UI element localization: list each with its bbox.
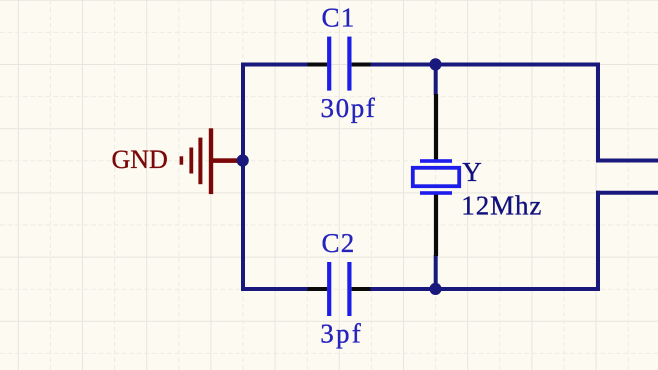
capacitor C2 pin 1 — [308, 287, 328, 291]
capacitor C1 plates — [327, 37, 351, 91]
wire: top rail left segment to C1 pin 1 — [241, 63, 310, 67]
capacitor C1 pin 2 — [352, 63, 371, 67]
svg-text:C2: C2 — [322, 228, 356, 258]
wire: bottom rail right segment from C2 pin 2 to right vertical — [369, 287, 600, 291]
svg-text:C1: C1 — [322, 3, 356, 33]
wire: right vertical lower drop — [596, 191, 600, 291]
power port GND symbol — [180, 128, 240, 194]
capacitor C1 pin 1 — [308, 63, 328, 67]
junction: top node at crystal branch — [429, 58, 441, 70]
crystal Y body — [413, 159, 459, 195]
wire: lower stub entering from right edge — [596, 191, 658, 195]
capacitor C2 pin 2 — [352, 287, 371, 291]
crystal Y pin 2 — [434, 195, 438, 257]
junction: bottom node at crystal branch — [429, 283, 441, 295]
svg-text:GND: GND — [112, 145, 168, 174]
wire: stub from top junction down to crystal pin 1 — [434, 65, 438, 96]
svg-text:30pf: 30pf — [321, 93, 377, 123]
svg-text:12Mhz: 12Mhz — [461, 190, 542, 220]
wire: top rail right segment from C1 pin 2 to right vertical — [369, 63, 600, 67]
wire: left vertical bus from top rail to bottom rail — [241, 63, 245, 292]
wire: right vertical upper drop — [596, 63, 600, 163]
capacitor C2 plates — [327, 262, 351, 316]
svg-text:Y: Y — [462, 157, 482, 187]
wire: stub from crystal pin 2 down to bottom junction — [434, 255, 438, 289]
wire: bottom rail left segment to C2 pin 1 — [241, 287, 310, 291]
junction: GND tap on left bus — [237, 154, 249, 166]
wire: upper stub exiting right edge — [596, 159, 658, 163]
svg-text:3pf: 3pf — [320, 318, 363, 348]
crystal Y pin 1 — [434, 94, 438, 160]
